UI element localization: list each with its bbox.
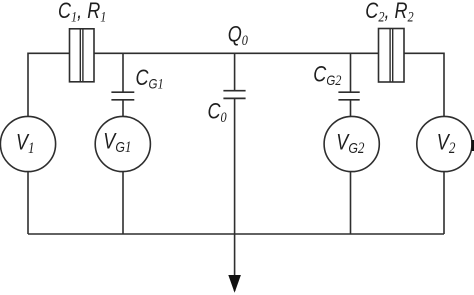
svg-text:C1, R1: C1, R1 (58, 0, 106, 25)
svg-text:C2, R2: C2, R2 (365, 0, 414, 25)
